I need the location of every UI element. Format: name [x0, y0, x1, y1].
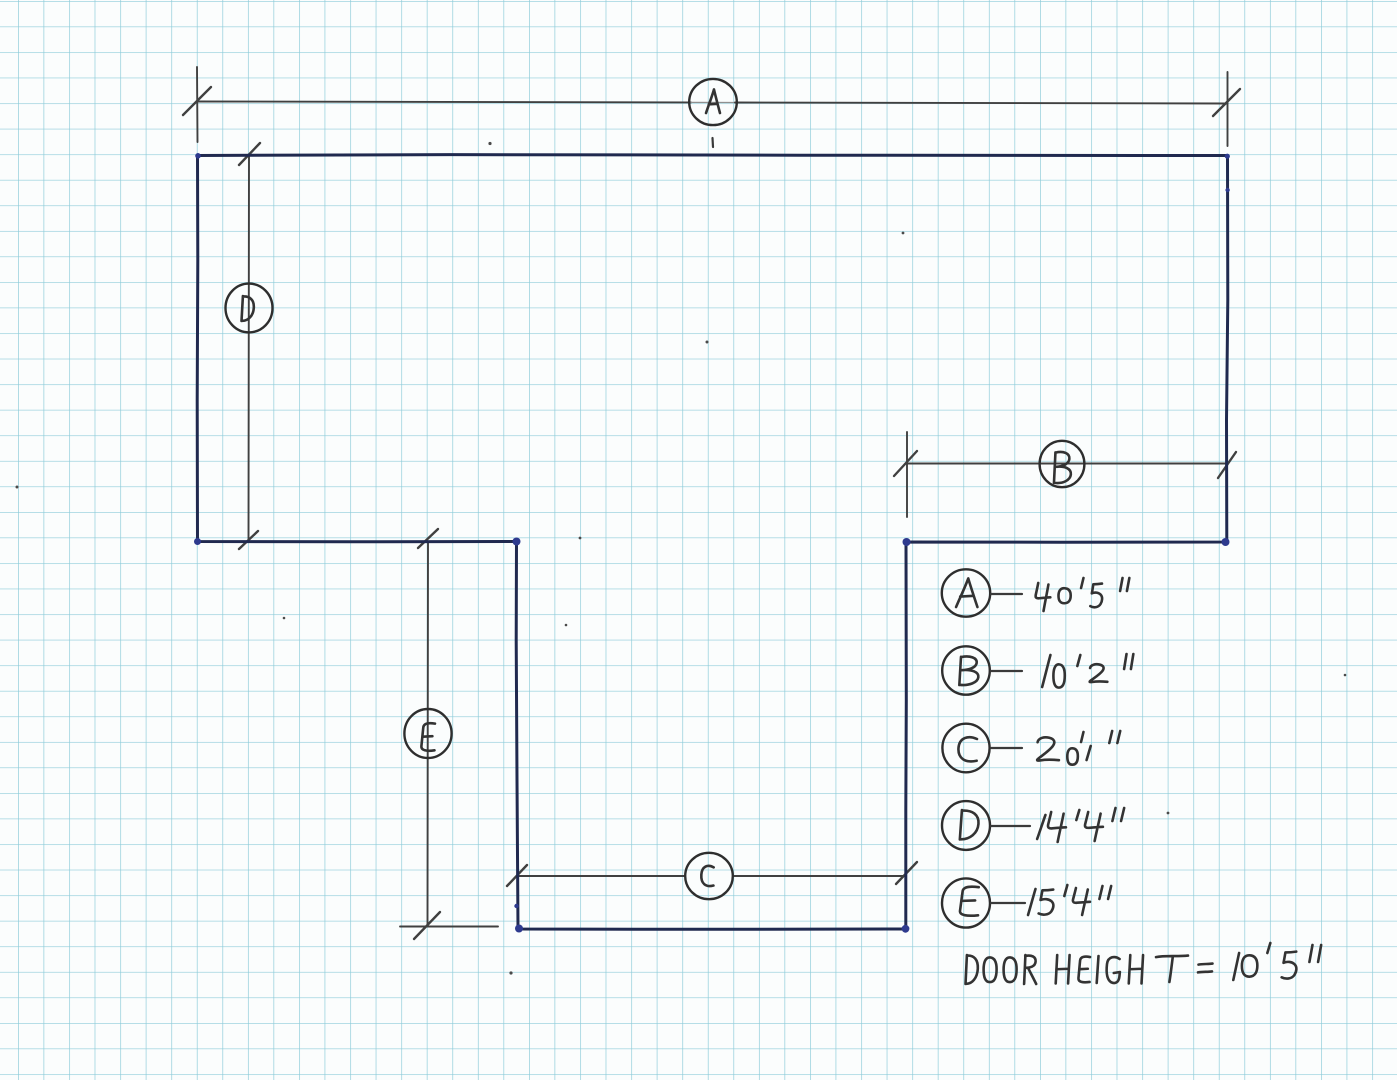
value C 20ft1in: [1037, 737, 1059, 760]
corner blobs: [194, 153, 1230, 933]
stray centre mark below circle A: [711, 138, 714, 147]
wall outline: [197, 155, 1228, 930]
label B: [1054, 452, 1071, 483]
corner blob top-right: [1225, 154, 1230, 159]
dim B tick left: [894, 451, 917, 476]
dim C line left: [517, 875, 685, 877]
dim E tick bottom: [414, 912, 440, 939]
dim circles on plan: [226, 79, 1085, 899]
dim D tick top: [239, 143, 260, 165]
blue plan outline: [197, 155, 1228, 930]
label D: [242, 296, 254, 321]
circle D: [226, 284, 273, 333]
legend label D: [960, 810, 979, 839]
corner dot inner-right: [903, 538, 911, 546]
dim E line: [427, 542, 430, 926]
legend dash E: [991, 902, 1025, 904]
value B 10ft2in: [1042, 655, 1050, 687]
legend: [942, 569, 990, 927]
dim B line: [907, 463, 1227, 465]
circle B: [1040, 441, 1085, 487]
dim E tick top: [418, 529, 438, 548]
corner dot left wall bottom: [194, 538, 201, 545]
dim A line faint through circle: [691, 101, 735, 103]
dim B tick right: [1218, 452, 1236, 478]
dim A ext left: [196, 67, 199, 142]
dim B ext left: [906, 432, 908, 517]
value A 40ft5in: [1036, 583, 1051, 611]
paper specks: [16, 142, 1347, 975]
legend circle A: [942, 569, 990, 616]
label C: [701, 866, 713, 886]
corner dot right wall bottom: [1222, 538, 1230, 546]
dim C line right: [734, 875, 905, 877]
legend circle C: [942, 724, 989, 773]
dim A line right: [735, 103, 1228, 104]
dim A tick left: [183, 87, 211, 115]
label A: [706, 90, 720, 113]
label E: [421, 723, 435, 751]
pencil dimension graphics: [183, 67, 1240, 939]
dim C tick right: [896, 862, 917, 884]
value E 15ft4in: [1028, 889, 1035, 915]
dim C tick left: [507, 865, 527, 886]
corner dot inner-left: [513, 538, 521, 546]
legend dash A: [991, 593, 1022, 595]
legend dash B: [991, 670, 1022, 672]
dim E ext bottom: [400, 926, 498, 928]
corner dot stem bottom-left: [515, 925, 523, 933]
dim D line: [248, 155, 251, 541]
legend dash C: [991, 747, 1022, 749]
small blob left stem wall: [514, 904, 518, 908]
legend label B: [959, 657, 978, 686]
dim A line left: [198, 101, 692, 104]
legend circle B: [942, 646, 990, 694]
legend circle E: [942, 878, 990, 927]
door height note: [966, 955, 978, 984]
corner blob top-left: [195, 153, 201, 159]
small blob right wall: [1225, 188, 1229, 192]
legend dash D: [991, 825, 1030, 827]
dim A tick right: [1213, 89, 1240, 116]
circle C: [685, 853, 733, 899]
legend label C: [958, 737, 977, 761]
legend label A: [956, 579, 977, 608]
circle A: [689, 79, 737, 125]
circle E: [404, 709, 451, 758]
dim D tick bottom: [239, 531, 258, 549]
corner dot stem bottom-right: [902, 925, 910, 933]
dim A ext right: [1227, 72, 1229, 146]
value D 14ft4in: [1037, 815, 1045, 839]
legend label E: [960, 887, 979, 916]
legend circle D: [942, 801, 990, 850]
